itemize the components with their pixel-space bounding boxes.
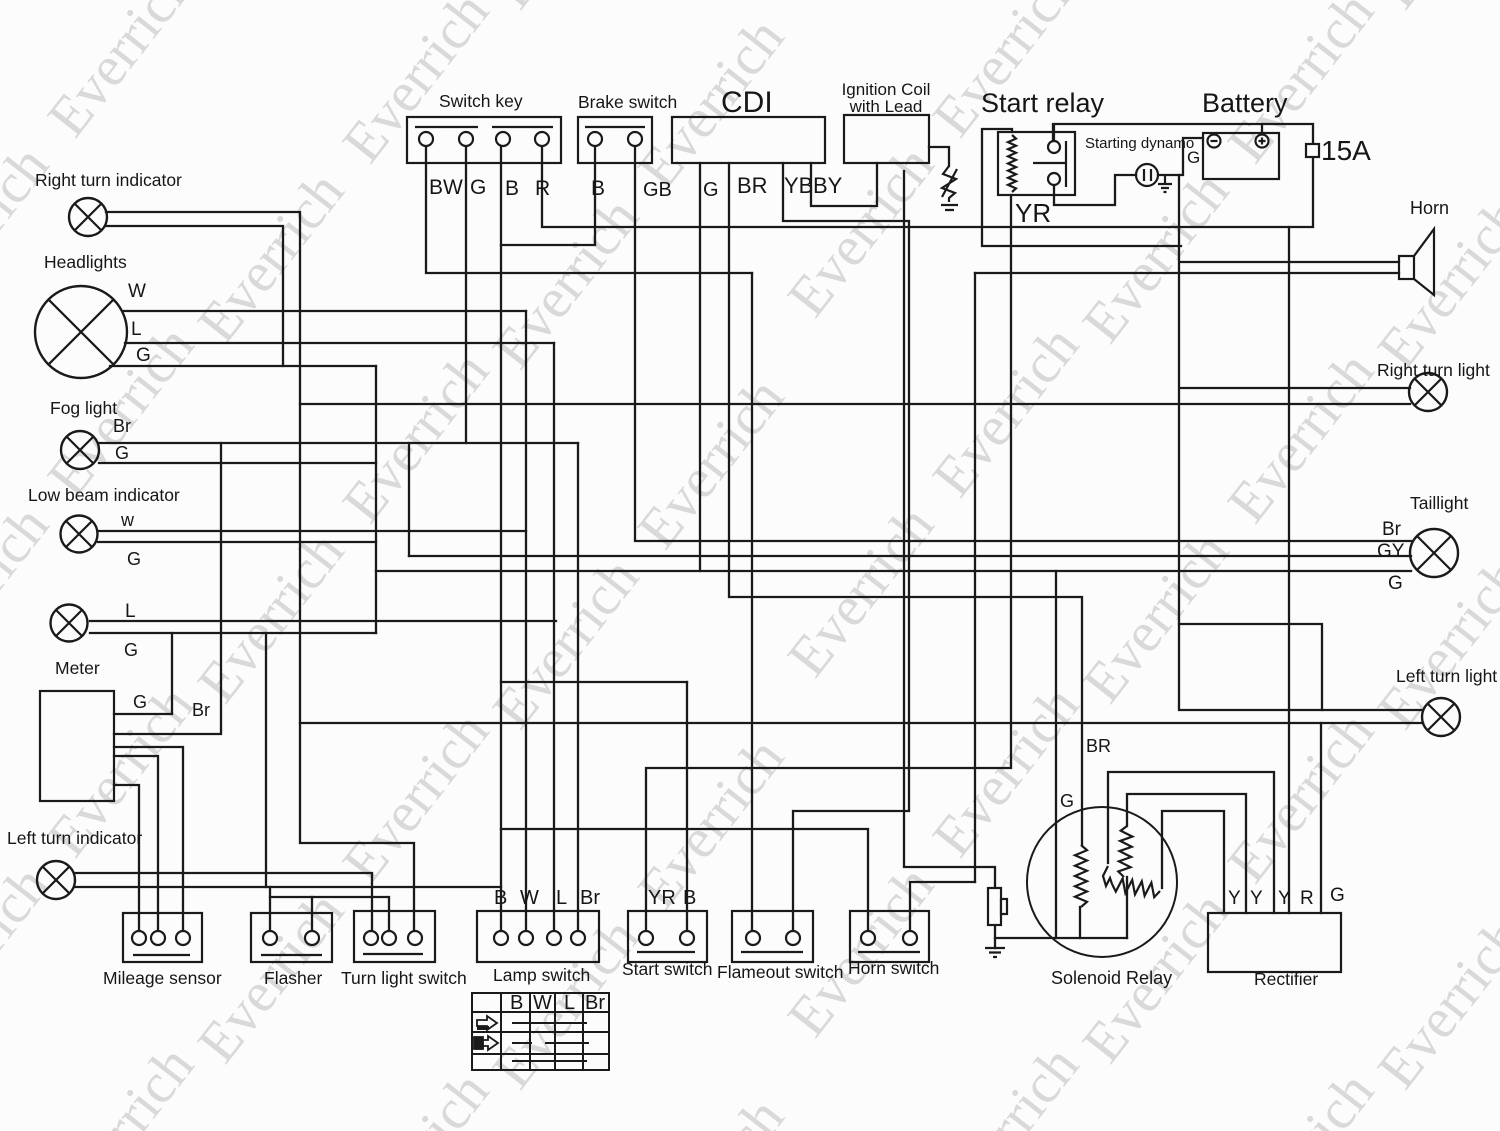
wire: rectifier G riser (1320, 723, 1322, 913)
solenoid relay K2 (1027, 807, 1177, 957)
wire: fog light G to bus (99, 462, 376, 464)
solenoid armature fork (1103, 866, 1112, 886)
svg-text:L: L (125, 601, 136, 622)
svg-text:G: G (127, 549, 141, 569)
wire: meter to mileage sensor T2 (114, 756, 158, 931)
wire: rectifier Y3 to solenoid armature (1108, 772, 1274, 913)
svg-text:Fog light: Fog light (50, 398, 117, 418)
svg-text:Starting dynamo: Starting dynamo (1085, 135, 1194, 152)
svg-text:Meter: Meter (55, 658, 100, 678)
wire: start switch YR to start relay (646, 195, 1011, 931)
svg-text:GB: GB (643, 179, 672, 201)
left turn indicator lamp (37, 861, 75, 899)
svg-text:G: G (1187, 148, 1200, 167)
start switch SW5 (628, 911, 707, 962)
solenoid contact resistor lower (1112, 879, 1160, 898)
svg-text:R: R (1300, 888, 1314, 909)
svg-text:Right turn indicator: Right turn indicator (35, 170, 182, 190)
svg-text:Br: Br (192, 700, 210, 720)
wire: branch x=266 down to left-turn-indicator line (265, 633, 267, 887)
wire: L indicator G wire (90, 632, 376, 634)
svg-text:Horn: Horn (1410, 198, 1449, 218)
wire: meter to mileage sensor T1 (114, 785, 139, 931)
wire: headlight G to G bus (110, 365, 376, 367)
svg-text:Flameout switch: Flameout switch (717, 962, 843, 982)
wire: horn feed lower y=273 (975, 272, 1399, 274)
svg-text:YB: YB (784, 173, 813, 198)
wire: horn switch T2 jog (910, 882, 975, 931)
wire: taillight GY line y=555 (409, 555, 1411, 557)
svg-text:15A: 15A (1321, 135, 1371, 166)
high beam indicator lamp (51, 605, 88, 642)
rectifier U2 (1208, 913, 1341, 972)
wire: CDI G pin to ground line (699, 163, 701, 571)
wire: horn riser x=975 (974, 273, 976, 882)
wire: taillight GY riser x=409 (408, 443, 410, 556)
svg-text:CDI: CDI (721, 86, 773, 119)
svg-text:BR: BR (1086, 736, 1111, 756)
svg-text:G: G (1388, 573, 1403, 594)
wire: lamp switch Br riser (577, 443, 579, 931)
spark plug gap (941, 166, 958, 210)
wire: CDI YB to flameout switch T2 (783, 163, 909, 931)
svg-text:B: B (683, 887, 696, 909)
horn LS1 (1399, 229, 1434, 295)
wire: L indicator to lamp switch L (90, 620, 556, 622)
svg-text:L: L (556, 887, 567, 909)
wire: lamp B to start switch B link y=682 (501, 681, 687, 683)
wire: left turn indicator lower to lamp switch B riser (75, 886, 501, 888)
fuse 15A F1 (1306, 144, 1319, 157)
ground at breaker (985, 948, 1005, 957)
svg-text:Left turn indicator: Left turn indicator (7, 828, 142, 848)
svg-text:GY: GY (1377, 541, 1405, 562)
svg-text:w: w (120, 510, 135, 530)
table arrow row3 (headlight) (474, 1036, 498, 1050)
wire: flasher T2 riser (311, 897, 313, 931)
wire: CDI BR to solenoid coil (729, 163, 1082, 845)
svg-text:BR: BR (737, 173, 768, 198)
wire: G bus right x=1181 (1178, 175, 1180, 710)
ground at dynamo (1158, 175, 1172, 192)
flameout switch SW6 (732, 911, 813, 962)
wire: solenoid coil bottom (1079, 907, 1081, 938)
svg-text:Rectifier: Rectifier (1254, 969, 1318, 989)
brake switch SW2 (578, 117, 652, 163)
svg-text:Brake switch: Brake switch (578, 92, 677, 112)
svg-text:B: B (591, 177, 605, 200)
mileage sensor (123, 913, 202, 962)
wire: fog light Br line y=443 (99, 442, 578, 444)
solenoid contact resistor upper (1118, 826, 1132, 877)
lamp switch truth table (472, 993, 609, 1070)
svg-text:YR: YR (648, 887, 676, 909)
wire: horn switch T1 line y=829 (501, 829, 868, 931)
wire: right turn indicator upper to turn-light-switch T3 via x=300 bus (106, 212, 414, 931)
svg-text:G: G (136, 345, 151, 366)
svg-text:BW: BW (429, 176, 463, 199)
fog light lamp (61, 431, 99, 469)
wire: G bus branch to left turn light (1179, 624, 1322, 710)
svg-text:Start relay: Start relay (981, 88, 1105, 118)
wire: flameout switch T1 riser (751, 273, 753, 931)
svg-text:Y: Y (1250, 888, 1263, 909)
left turn light lamp (1422, 698, 1460, 736)
svg-text:B: B (510, 992, 523, 1014)
svg-text:G: G (470, 176, 486, 199)
svg-text:Y: Y (1228, 888, 1241, 909)
svg-text:BY: BY (813, 173, 843, 198)
table arrow row2 (turn) (477, 1016, 497, 1030)
wire: fuse feeder x=904 (904, 171, 995, 888)
wire: right turn indicator lower down x=283 (106, 226, 283, 366)
wire: CDI BY to ignition coil (811, 163, 877, 206)
wire: lamp switch W riser (525, 311, 527, 931)
wire: start switch B riser (686, 682, 688, 931)
wire: start relay left leg (982, 129, 1181, 246)
right turn indicator lamp (69, 198, 107, 236)
svg-text:Br: Br (585, 992, 605, 1014)
wire: horn upper feed (1181, 261, 1399, 263)
svg-text:G: G (133, 692, 147, 712)
svg-text:Solenoid Relay: Solenoid Relay (1051, 968, 1172, 988)
ignition coil T1 (844, 115, 929, 163)
low beam indicator lamp (61, 516, 98, 553)
wire: meter G link x=172 (114, 633, 172, 714)
wire: flasher T1 riser (269, 887, 271, 931)
wire: G bus vertical x=376 (375, 366, 377, 633)
lamp switch SW4 (477, 911, 599, 962)
start relay K1 (998, 124, 1075, 195)
wire: battery plus to rectifier R (1288, 227, 1290, 913)
wire: solenoid G riser (1055, 571, 1057, 938)
CDI unit U1 (672, 117, 825, 163)
taillight lamp (1410, 529, 1458, 577)
svg-text:R: R (535, 177, 550, 200)
svg-text:B: B (505, 177, 519, 200)
wire: headlight W to lamp switch W (124, 310, 526, 312)
wire: headlight L to lamp switch L (125, 342, 554, 344)
svg-text:L: L (564, 992, 575, 1014)
svg-text:B: B (494, 887, 507, 909)
svg-text:Headlights: Headlights (44, 252, 127, 272)
wire: rectifier Y2 to solenoid contact (1127, 794, 1246, 913)
solenoid coil resistor (1075, 845, 1087, 907)
svg-text:Br: Br (580, 887, 600, 909)
svg-text:Low beam indicator: Low beam indicator (28, 485, 180, 505)
wire: switch key B / lamp switch B riser (500, 145, 502, 931)
flasher unit (251, 913, 332, 962)
svg-text:G: G (124, 640, 138, 660)
svg-text:Turn light switch: Turn light switch (341, 968, 467, 988)
svg-text:Y: Y (1278, 888, 1291, 909)
wire: switch key G riser (465, 145, 467, 443)
wire: rectifier Y1 to solenoid contact (1162, 811, 1224, 913)
svg-text:Right turn light: Right turn light (1377, 360, 1490, 380)
wire: meter to mileage sensor T3 (114, 747, 183, 931)
svg-text:YR: YR (1015, 198, 1051, 228)
wire: left turn light upper feed (1181, 709, 1423, 711)
svg-text:Br: Br (1382, 519, 1402, 540)
wire: fuse lower lead (994, 925, 996, 948)
wire: switch key R to battery frame y=227 (542, 124, 1313, 227)
svg-text:W: W (533, 992, 552, 1014)
svg-text:Left turn light: Left turn light (1396, 666, 1497, 686)
wire: meter Br link x=221 (114, 443, 221, 734)
wire: low beam w to lamp W riser (98, 530, 526, 532)
headlights lamp (35, 286, 127, 378)
wire: solenoid contact leg (1126, 877, 1128, 938)
horn switch SW7 (850, 911, 929, 962)
breaker to ground (988, 888, 1007, 925)
wire: solenoid common bottom line (995, 937, 1127, 939)
svg-text:Start switch: Start switch (622, 959, 712, 979)
svg-text:L: L (131, 319, 142, 340)
wire: low beam G to bus (98, 541, 376, 543)
svg-text:W: W (520, 887, 539, 909)
svg-text:Mileage sensor: Mileage sensor (103, 968, 222, 988)
svg-text:G: G (703, 179, 719, 201)
starting dynamo M1 (1136, 164, 1158, 186)
turn light switch SW3 (354, 911, 435, 962)
meter unit M2 (40, 691, 114, 801)
wire: brake switch GB to taillight Br (635, 145, 1411, 541)
right turn light lamp (1409, 373, 1447, 411)
svg-text:Flasher: Flasher (264, 968, 323, 988)
svg-text:G: G (1330, 885, 1345, 906)
wire: brake switch B jog (501, 145, 595, 245)
wire: start relay lower contact to dynamo (1054, 175, 1136, 205)
wire: switch key BW line y=273 (426, 145, 752, 273)
wire: flasher link y=897 (270, 897, 389, 931)
wire: battery plus riser (1261, 124, 1263, 135)
svg-text:Lamp switch: Lamp switch (493, 965, 590, 985)
wire: left turn light lower feed y=723 (300, 722, 1423, 724)
switch key SW1 (407, 117, 561, 163)
wire: lamp switch L riser (553, 343, 555, 931)
svg-text:G: G (1060, 791, 1074, 811)
wire: right turn light upper feed from G bus (1181, 387, 1410, 389)
battery BT1 (1203, 133, 1279, 179)
svg-text:Switch key: Switch key (439, 91, 523, 111)
wire: green ground line y=570 to taillight G (376, 570, 1411, 572)
svg-text:Battery: Battery (1202, 88, 1288, 118)
wire: left turn indicator upper to turn switch T1 (75, 873, 372, 931)
svg-text:Horn switch: Horn switch (848, 958, 939, 978)
svg-text:W: W (128, 281, 146, 302)
wire: ignition coil HT lead (929, 147, 949, 166)
svg-text:Taillight: Taillight (1410, 493, 1468, 513)
svg-text:with Lead: with Lead (849, 97, 923, 116)
wire: dynamo to battery minus G wire (1158, 138, 1203, 175)
svg-text:Br: Br (113, 416, 131, 436)
wire: right turn light lower feed y=404 (300, 403, 1410, 405)
svg-text:G: G (115, 443, 129, 463)
